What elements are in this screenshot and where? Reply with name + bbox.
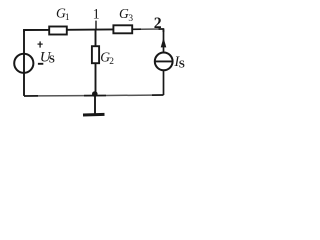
resistor G2 [92,46,99,63]
label minus [38,63,43,65]
voltage source US [14,54,33,73]
label G3 [119,6,133,24]
label G2 [100,50,114,68]
wire top left [24,30,49,32]
wire middle branch [95,30,97,96]
wire top right [133,29,164,32]
node 2 [154,15,162,32]
ground [83,95,105,115]
current source IS [154,38,173,71]
wire bottom [24,95,164,96]
wire left branch [23,30,25,96]
svg-text:3: 3 [128,14,133,24]
wire right branch [163,29,165,95]
svg-text:1: 1 [65,13,70,23]
svg-text:2: 2 [154,15,162,32]
svg-text:S: S [49,54,55,66]
label G1 [56,6,70,24]
label IS [173,54,185,71]
resistor G1 [49,27,67,35]
wire top middle [67,28,113,30]
svg-text:1: 1 [93,6,100,22]
node 1 [93,6,100,29]
svg-text:S: S [179,59,185,71]
label + [38,41,43,47]
resistor G3 [113,25,132,33]
junction dot [92,91,98,97]
svg-text:2: 2 [109,57,114,67]
label US [40,50,55,66]
